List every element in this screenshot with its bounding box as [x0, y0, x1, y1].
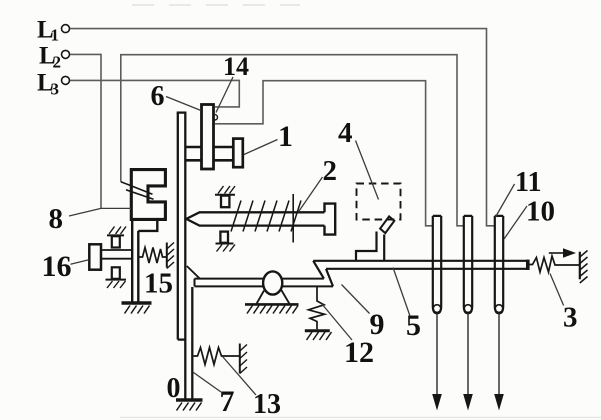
- spring 15: [140, 248, 167, 264]
- drop line and arrow bar3: [494, 313, 504, 410]
- wall for spring 3: [580, 251, 588, 284]
- leader 10: [504, 206, 527, 239]
- wire L2 to coil of magnet 8: [70, 54, 101, 208]
- contact dot 14: [212, 115, 217, 120]
- leader 13: [223, 357, 257, 396]
- pawl stand 9: [356, 232, 384, 261]
- svg-text:8: 8: [49, 203, 64, 235]
- terminal L2 label: [39, 43, 61, 72]
- terminal L3 label: [37, 70, 59, 99]
- ground under pivot: [245, 304, 299, 313]
- dashed box 4: [357, 184, 401, 220]
- leader 5: [393, 268, 410, 317]
- upper bearing of screw 2: [215, 186, 235, 207]
- svg-text:10: 10: [526, 196, 555, 228]
- svg-text:1: 1: [278, 120, 293, 153]
- svg-text:3: 3: [51, 80, 60, 99]
- leader 9: [342, 285, 370, 314]
- leader 1: [244, 140, 278, 155]
- support post under magnet: [132, 221, 157, 302]
- drop line and arrow bar2: [463, 313, 473, 410]
- ground under spring 12: [305, 331, 332, 340]
- coil lead B: [126, 190, 154, 199]
- leader 2: [299, 177, 323, 212]
- shaft of 16: [101, 250, 132, 259]
- wire brush lower to electrode bar 1: [215, 81, 433, 226]
- svg-text:4: 4: [338, 117, 353, 149]
- coil lead A: [121, 182, 153, 195]
- strut lever to link: [187, 266, 200, 279]
- leader 7: [194, 373, 222, 393]
- pawl tip: [380, 216, 394, 233]
- terminal L1 circle: [62, 25, 70, 33]
- electrode bar 1 (left): [433, 216, 441, 313]
- leader 3: [550, 274, 564, 306]
- terminal L2 circle: [62, 50, 70, 58]
- terminal L3 circle: [62, 76, 70, 84]
- svg-text:2: 2: [53, 53, 62, 72]
- leader 6: [166, 97, 201, 111]
- lever 7 lower rod: [191, 287, 193, 399]
- main contact bar 5: [313, 260, 528, 270]
- upper guide bearing of 16: [107, 227, 126, 248]
- leader 11: [496, 184, 515, 217]
- pivot support legs: [257, 290, 290, 304]
- link bar 12: [195, 279, 334, 287]
- rheostat slider 6: [202, 105, 214, 170]
- shaft between lever, rheostat slider and knob: [186, 147, 233, 160]
- wire L3 to brush contact 14: [70, 80, 239, 107]
- svg-text:14: 14: [223, 52, 249, 81]
- svg-text:16: 16: [42, 250, 72, 283]
- svg-text:5: 5: [406, 309, 421, 342]
- screw shaft 2: [186, 212, 324, 225]
- electrode bar 2 (middle): [464, 216, 472, 313]
- svg-text:13: 13: [253, 389, 281, 420]
- wall for spring 13: [240, 344, 247, 374]
- wall for spring 15: [167, 243, 174, 269]
- spring 12 hanger: [309, 287, 325, 330]
- spring 13: [194, 348, 240, 365]
- z-step bar5 to link: [313, 261, 333, 287]
- pivot circle: [263, 271, 282, 294]
- spring 3: [529, 256, 579, 272]
- leader 16: [71, 260, 89, 265]
- svg-text:7: 7: [220, 385, 235, 418]
- svg-text:2: 2: [323, 155, 338, 187]
- electrode bar 3 (right): [495, 216, 503, 313]
- screw head: [325, 204, 336, 235]
- drop line and arrow bar1: [432, 313, 442, 410]
- svg-text:6: 6: [151, 81, 165, 112]
- actuator 16: [89, 244, 101, 269]
- motion arrow: [549, 248, 576, 257]
- svg-text:0: 0: [167, 373, 181, 404]
- electromagnet core 8: [131, 170, 165, 220]
- svg-text:3: 3: [563, 302, 578, 334]
- svg-text:15: 15: [144, 268, 173, 300]
- leader 4: [356, 141, 379, 200]
- leader 12: [322, 304, 353, 341]
- ground under lever 7: [176, 400, 203, 411]
- wire L1 to electrode 10: [70, 29, 495, 226]
- leader 14: [216, 77, 233, 113]
- lever 7 upper rod: [177, 113, 187, 399]
- wire L2 end to core: [101, 207, 131, 209]
- svg-text:9: 9: [370, 308, 385, 341]
- terminal L1 label: [37, 17, 59, 45]
- follower line on screw: [292, 194, 294, 243]
- knob 1: [233, 139, 243, 168]
- leader 8: [69, 208, 101, 216]
- screw thread hatching: [231, 201, 301, 232]
- lower guide bearing of 16: [106, 267, 127, 288]
- wire coil to electrode bar 2: [121, 55, 464, 226]
- ground under post: [122, 303, 152, 314]
- lower bearing of screw 2: [216, 232, 236, 252]
- svg-text:11: 11: [515, 167, 541, 198]
